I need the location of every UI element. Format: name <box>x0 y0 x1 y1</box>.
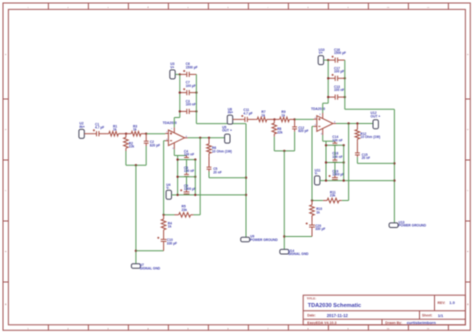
label U13 POWER GROUND <box>399 220 427 227</box>
pin numbers <box>166 128 187 150</box>
wire V+ rail jog <box>174 117 180 119</box>
wire V- right rail <box>343 145 345 180</box>
svg-text:4.7 µF: 4.7 µF <box>95 126 104 130</box>
label U7 SIGNAL GND <box>140 263 161 270</box>
capacitor C8 100nF <box>184 173 189 177</box>
wire V- port to row3 <box>320 180 326 182</box>
svg-text:100 nF: 100 nF <box>184 169 194 173</box>
label R5 23k <box>182 205 188 212</box>
junction power rail / V- caps <box>245 194 247 196</box>
svg-text:1k: 1k <box>133 128 137 132</box>
label C14 100 nF <box>332 135 342 142</box>
svg-text:10: 10 <box>387 7 390 9</box>
junction output/zobel <box>208 137 210 139</box>
label C2 820 pF <box>150 140 160 147</box>
junction V+ rail top <box>327 59 329 61</box>
svg-text:POWER GROUND: POWER GROUND <box>250 238 278 242</box>
capacitor C4 100nF <box>184 156 189 160</box>
svg-text:C: C <box>5 190 7 192</box>
wire pin3 to C4 <box>323 140 335 142</box>
wire pin3 to C4 <box>174 155 186 157</box>
svg-text:1500 µF: 1500 µF <box>334 51 346 55</box>
capacitor C15 20nF <box>355 142 360 157</box>
wire V+ gnd to power rail <box>196 123 246 125</box>
label U8 IN+ <box>228 107 233 114</box>
label U1 TDA2030 <box>163 121 177 125</box>
wire feedback vertical <box>348 124 350 201</box>
wire - input stub <box>312 125 314 127</box>
label C16 1500 uF <box>334 48 346 55</box>
svg-text:2: 2 <box>67 7 69 9</box>
svg-text:100 nF: 100 nF <box>334 88 344 92</box>
capacitor C14 100nF <box>333 141 338 145</box>
wire V- left rail <box>325 141 327 180</box>
wire V- row1 <box>178 159 196 161</box>
junction feedback node <box>311 199 313 201</box>
resistor R5 23k <box>175 213 194 218</box>
label C1 4.7 uF <box>95 123 104 130</box>
capacitor C9 1500uF <box>180 189 189 195</box>
svg-text:REV:: REV: <box>438 301 446 305</box>
junction row1 left <box>176 158 178 160</box>
svg-text:V+: V+ <box>319 51 323 55</box>
port U7 SIGNAL GND <box>131 264 140 269</box>
wire pin3 down <box>322 135 324 141</box>
svg-text:TITLE:: TITLE: <box>307 297 316 301</box>
wire V+ gnd to power rail <box>345 108 395 110</box>
junction R1-R2-R3 <box>125 133 127 135</box>
wire signal gnd rail <box>283 151 285 249</box>
label R6 10 Ohm (1W) <box>212 146 232 153</box>
label U11 V- <box>315 169 321 176</box>
label R1 1k <box>113 125 117 132</box>
junction row2 right <box>194 176 196 178</box>
junction signal gnd rail / C10 branch <box>135 250 137 252</box>
capacitor C16 1500uF <box>328 56 345 63</box>
label C3 100 nF <box>186 99 196 106</box>
resistor R9 1k <box>275 117 295 122</box>
label R4 1k <box>168 221 172 228</box>
svg-text:1500 µF: 1500 µF <box>184 187 196 191</box>
svg-text:V+: V+ <box>170 65 174 69</box>
label U6 TDA2030 <box>311 107 325 111</box>
svg-text:4.7 µF: 4.7 µF <box>243 111 252 115</box>
capacitor C2 820pF <box>144 134 149 146</box>
wire zobel down <box>208 172 210 178</box>
svg-text:1k: 1k <box>168 225 172 229</box>
capacitor C6 1500uF <box>180 70 197 77</box>
wire feedback to R5 <box>342 200 349 202</box>
wire V+ gnd down <box>195 111 197 123</box>
capacitor C10 330uF <box>157 237 166 251</box>
label R11 23k <box>330 190 336 197</box>
svg-text:A: A <box>467 303 469 306</box>
resistor R7 1k <box>255 117 274 122</box>
label C17 100 uF <box>334 66 344 73</box>
wire power gnd rail <box>393 109 395 223</box>
port U12 OUT+ <box>373 120 378 129</box>
wire V+ caps gnd rail <box>195 74 197 111</box>
svg-text:SIGNAL GND: SIGNAL GND <box>140 266 161 270</box>
capacitor C18 100nF <box>333 159 338 163</box>
wire R5 to node <box>164 214 175 216</box>
svg-text:EasyEDA V4.10.3: EasyEDA V4.10.3 <box>307 321 336 325</box>
label C20 330 uF <box>315 224 325 231</box>
capacitor C20 330uF <box>306 222 315 236</box>
svg-text:V-: V- <box>166 186 169 190</box>
junction C7 right <box>195 91 197 93</box>
wire C9 top <box>186 177 188 190</box>
label C18 100 nF <box>332 152 342 159</box>
svg-text:1k: 1k <box>261 113 265 117</box>
port U11 V- <box>315 176 320 185</box>
port U2 IN+ <box>79 129 84 138</box>
label U3 V+ <box>170 62 174 69</box>
svg-text:curtisbeimborn: curtisbeimborn <box>407 320 437 325</box>
junction C7 left <box>179 91 181 93</box>
svg-text:1k: 1k <box>281 113 285 117</box>
wire signal gnd rail <box>135 165 137 263</box>
resistor R6 10 Ohm <box>207 138 212 156</box>
resistor R1 1k <box>107 131 126 136</box>
junction input gnd rail <box>283 150 285 152</box>
svg-text:820 pF: 820 pF <box>150 143 160 147</box>
wire R5 to node <box>312 200 323 202</box>
label R12 10 Ohm (1W) <box>360 132 380 139</box>
capacitor C11 4.7uF <box>241 115 255 122</box>
junction power rail / zobel <box>393 162 395 164</box>
svg-text:OUT +: OUT + <box>371 114 381 118</box>
wire to op-amp + input <box>295 118 314 120</box>
label C5 20 nF <box>213 167 222 174</box>
wire pin3 down <box>173 149 175 155</box>
svg-text:330 µF: 330 µF <box>315 227 325 231</box>
wire feedback to R5 <box>193 214 200 216</box>
wire C12 to gnd rail <box>294 132 296 151</box>
wire input gnd rail <box>274 150 294 152</box>
port U3 V+ <box>170 70 175 79</box>
wire output <box>188 137 225 139</box>
wire C2 to gnd rail <box>145 146 147 165</box>
wire to op-amp + input <box>146 133 165 135</box>
junction output/feedback <box>199 137 201 139</box>
junction R9-C12 <box>293 118 295 120</box>
svg-text:100 nF: 100 nF <box>186 103 196 107</box>
label C9 1500 uF <box>184 184 196 191</box>
port U4 V- <box>166 190 171 199</box>
wire V- left rail <box>177 156 179 195</box>
svg-text:100 nF: 100 nF <box>332 155 342 159</box>
resistor R12 10 Ohm <box>355 124 360 142</box>
svg-text:E: E <box>467 54 469 56</box>
capacitor C13 100nF <box>328 95 345 100</box>
svg-text:B: B <box>5 251 7 253</box>
label U9 POWER GROUND <box>250 235 278 242</box>
wire C9 top <box>334 163 336 176</box>
label C4 100 nF <box>184 149 194 156</box>
svg-text:23k: 23k <box>182 208 188 212</box>
svg-text:5: 5 <box>319 114 321 116</box>
label R7 1k <box>261 110 265 117</box>
resistor R11 23k <box>323 198 342 203</box>
capacitor C3 100nF <box>180 109 197 114</box>
wire V- row3 to power rail <box>178 194 246 196</box>
svg-text:10 Ohm (1W): 10 Ohm (1W) <box>212 149 232 153</box>
label R10 1k <box>316 207 322 214</box>
svg-text:10 Ohm (1W): 10 Ohm (1W) <box>360 135 380 139</box>
wire C10 bottom jog <box>136 250 164 252</box>
svg-text:C: C <box>467 190 469 192</box>
wire feedback vertical <box>199 138 201 215</box>
wire V+ to pin5 <box>173 118 175 128</box>
capacitor C19 1500uF <box>329 175 338 181</box>
junction C3 right <box>195 110 197 112</box>
label C8 100 nF <box>184 166 194 173</box>
resistor R3 1k <box>126 131 146 136</box>
wire node to - input <box>311 126 313 200</box>
svg-text:E: E <box>5 54 7 56</box>
wire V+ left rail <box>327 60 329 103</box>
junction row3 left <box>325 179 327 181</box>
junction C7 right <box>344 77 346 79</box>
junction output/zobel <box>356 122 358 124</box>
junction V+ rail top <box>179 73 181 75</box>
junction C3 left <box>179 110 181 112</box>
svg-text:20 nF: 20 nF <box>362 156 371 160</box>
label C10 330 uF <box>167 238 177 245</box>
svg-text:TDA2030 Schematic: TDA2030 Schematic <box>308 303 361 309</box>
junction power rail / V- caps <box>393 179 395 181</box>
wire C8 top <box>186 160 188 173</box>
wire V- port to row3 <box>172 194 178 196</box>
svg-text:Date:: Date: <box>307 314 315 318</box>
junction row1 left <box>325 144 327 146</box>
junction C3 left <box>327 96 329 98</box>
wire zobel to power rail <box>209 177 246 179</box>
junction C3 right <box>344 96 346 98</box>
resistor R4 1k <box>161 215 166 237</box>
svg-text:1/1: 1/1 <box>438 313 444 318</box>
wire V- row3 to power rail <box>326 180 394 182</box>
svg-text:1500 µF: 1500 µF <box>186 65 198 69</box>
capacitor C5 20nF <box>207 156 212 171</box>
label C11 4.7 uF <box>243 108 252 115</box>
resistor R2 22k <box>124 134 129 151</box>
svg-text:4: 4 <box>147 6 149 9</box>
junction row1 right <box>194 158 196 160</box>
wire zobel to power rail <box>357 162 394 164</box>
svg-text:V-: V- <box>315 172 318 176</box>
wire zobel down <box>356 157 358 163</box>
label C7 100 uF <box>186 81 196 88</box>
label C15 20 nF <box>362 153 371 160</box>
svg-text:5: 5 <box>171 128 173 130</box>
svg-text:5: 5 <box>187 7 189 9</box>
svg-text:1.0: 1.0 <box>449 300 455 305</box>
svg-text:11: 11 <box>427 7 430 9</box>
label R9 1k <box>281 110 285 117</box>
svg-text:22k: 22k <box>129 145 135 149</box>
svg-text:IN+: IN+ <box>228 111 233 115</box>
label U14 SIGNAL GND <box>288 249 309 256</box>
wire V+ gnd down <box>344 97 346 109</box>
wire V+ port to rail <box>324 59 329 61</box>
svg-text:Drawn By:: Drawn By: <box>385 321 402 325</box>
svg-text:1k: 1k <box>113 128 117 132</box>
port U9 POWER GROUND <box>241 237 250 242</box>
junction row1 right <box>343 144 345 146</box>
wire V+ left rail <box>179 74 181 117</box>
label U2 IN+ <box>79 122 84 129</box>
label C12 820 pF <box>298 126 308 133</box>
port U13 POWER GROUND <box>389 223 398 228</box>
label U12 OUT + <box>371 111 381 118</box>
svg-text:100 nF: 100 nF <box>332 138 342 142</box>
label U10 V+ <box>319 48 325 55</box>
svg-text:22k: 22k <box>277 130 283 134</box>
junction output/feedback <box>347 122 349 124</box>
svg-text:SIGNAL GND: SIGNAL GND <box>288 252 309 256</box>
pin numbers <box>315 114 336 136</box>
junction R3-C2 <box>145 133 147 135</box>
op-amp U6 TDA2030 <box>314 113 336 135</box>
junction row3 left <box>176 194 178 196</box>
label U5 OUT + <box>222 126 232 133</box>
svg-text:100 nF: 100 nF <box>184 153 194 157</box>
capacitor C17 100uF <box>328 74 345 81</box>
junction power rail / zobel <box>245 177 247 179</box>
wire C10 bottom jog <box>284 236 312 238</box>
svg-text:OUT +: OUT + <box>222 129 232 133</box>
wire C8 top <box>334 145 336 158</box>
svg-text:23k: 23k <box>330 194 336 198</box>
svg-text:6: 6 <box>227 7 229 9</box>
wire output <box>336 123 373 125</box>
label U4 V- <box>166 183 170 190</box>
svg-text:Sheet:: Sheet: <box>422 314 432 318</box>
svg-text:20 nF: 20 nF <box>213 170 222 174</box>
op-amp U1 TDA2030 <box>165 127 187 149</box>
junction C7 left <box>327 77 329 79</box>
port U8 IN+ <box>227 115 232 124</box>
wire V- row2 <box>178 176 196 178</box>
label R3 1k <box>133 125 137 132</box>
svg-text:3: 3 <box>107 7 109 9</box>
wire R8 to gnd rail <box>273 137 275 151</box>
capacitor C12 820pF <box>292 119 297 131</box>
svg-text:820 pF: 820 pF <box>298 129 308 133</box>
svg-text:B: B <box>467 251 469 253</box>
junction feedback node <box>162 214 164 216</box>
wire node to - input <box>163 141 165 215</box>
wire input gnd rail <box>126 164 146 166</box>
label C6 1500 uF <box>186 62 198 69</box>
junction signal gnd rail / C10 branch <box>283 235 285 237</box>
svg-text:100 µF: 100 µF <box>334 70 344 74</box>
wire V+ port to rail <box>175 73 180 75</box>
svg-text:8: 8 <box>307 7 309 9</box>
resistor R8 22k <box>272 119 277 136</box>
junction row3 right <box>343 179 345 181</box>
junction row2 left <box>325 161 327 163</box>
title block <box>303 295 465 325</box>
wire input port to C1 <box>84 133 94 135</box>
wire V+ caps gnd rail <box>344 60 346 97</box>
junction row2 right <box>343 161 345 163</box>
svg-text:1: 1 <box>27 7 29 9</box>
wire V- right rail <box>194 160 196 195</box>
label C13 100 nF <box>334 85 344 92</box>
wire R2 to gnd rail <box>125 151 127 165</box>
label R2 22k <box>129 142 135 149</box>
svg-text:100 µF: 100 µF <box>186 84 196 88</box>
label R8 22k <box>277 127 283 134</box>
port U5 OUT+ <box>225 134 230 143</box>
svg-text:D: D <box>467 129 469 131</box>
svg-text:7: 7 <box>267 7 269 9</box>
wire input port to C1 <box>233 118 243 120</box>
wire - input stub <box>164 140 166 142</box>
label C19 1500 uF <box>332 170 344 177</box>
junction input gnd rail <box>135 164 137 166</box>
port U10 V+ <box>318 56 323 65</box>
capacitor C7 100uF <box>180 88 197 95</box>
capacitor C1 4.7uF <box>93 129 107 136</box>
svg-text:1k: 1k <box>316 210 320 214</box>
wire power gnd rail <box>245 124 247 238</box>
resistor R10 1k <box>310 201 315 223</box>
wire V- row1 <box>326 144 344 146</box>
junction row3 right <box>194 194 196 196</box>
svg-text:A: A <box>5 303 7 306</box>
svg-text:D: D <box>5 129 7 131</box>
junction row2 left <box>176 176 178 178</box>
svg-text:IN+: IN+ <box>79 125 84 129</box>
svg-text:330 µF: 330 µF <box>167 241 177 245</box>
svg-text:2017-11-12: 2017-11-12 <box>327 313 349 318</box>
port U14 SIGNAL GND <box>280 249 289 254</box>
wire V+ rail jog <box>323 102 329 104</box>
svg-text:POWER GROUND: POWER GROUND <box>399 224 427 228</box>
svg-text:9: 9 <box>347 7 349 9</box>
wire V- row2 <box>326 162 344 164</box>
svg-text:1500 µF: 1500 µF <box>332 173 344 177</box>
junction R7-R8-R9 <box>273 118 275 120</box>
wire V+ to pin5 <box>322 103 324 113</box>
